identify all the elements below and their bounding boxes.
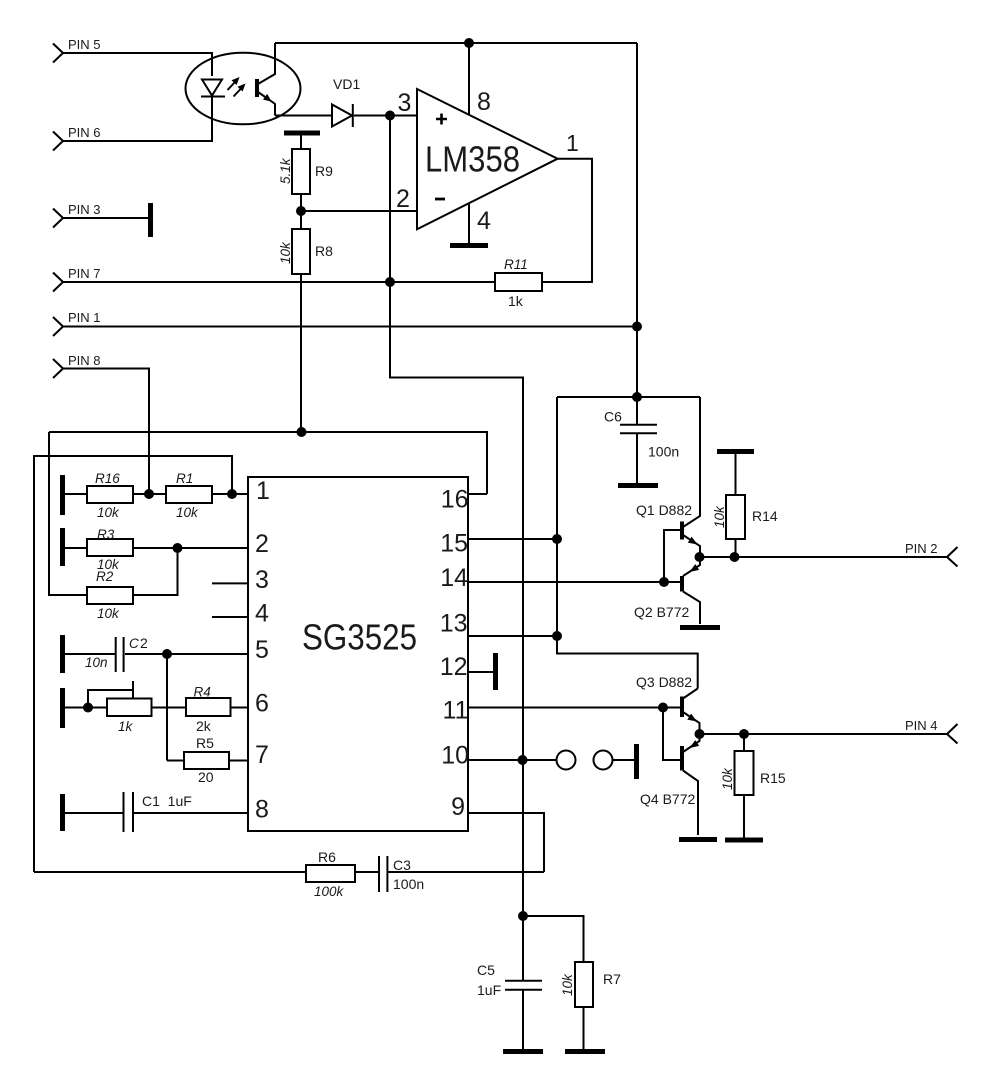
wire Ct to R5: [167, 760, 184, 762]
node junction pin11/Q4 base: [658, 703, 668, 713]
svg-text:10k: 10k: [278, 241, 293, 264]
svg-text:PIN 5: PIN 5: [68, 37, 101, 52]
svg-text:7: 7: [255, 741, 269, 769]
svg-text:C1 1uF: C1 1uF: [142, 793, 192, 809]
wire output to PIN 4: [700, 733, 947, 735]
svg-text:13: 13: [440, 610, 468, 638]
wire mid bus pin15/pin13: [556, 397, 558, 636]
node junction pin10 bus: [518, 755, 528, 765]
wire SG3525 pin10: [468, 759, 557, 761]
svg-text:R16: R16: [95, 471, 120, 486]
jumper circle A: [557, 751, 576, 770]
svg-text:9: 9: [451, 793, 465, 821]
node junction pin15 bus: [552, 534, 562, 544]
ground under C6: [618, 483, 658, 488]
node junction R14/output: [730, 552, 740, 562]
wire SG3525 pin9: [468, 813, 544, 872]
node junction R8/vref rail: [297, 427, 307, 437]
wire PIN1 to node: [62, 326, 637, 328]
ground under C5: [503, 1049, 543, 1054]
resistor R3: [64, 527, 133, 572]
wire PIN7 to R11: [62, 281, 495, 283]
svg-text:10k: 10k: [176, 505, 199, 520]
wire PIN6 to optocoupler LED cathode: [62, 97, 212, 141]
svg-text:Q2 B772: Q2 B772: [634, 604, 689, 620]
svg-text:LM358: LM358: [425, 139, 520, 180]
wire R2 left to vref rail: [49, 432, 87, 595]
wire optocoupler collector to top rail: [275, 42, 637, 44]
node junction R15/output: [739, 729, 749, 739]
terminator bar left of R3: [60, 528, 65, 566]
svg-text:Q4 B772: Q4 B772: [640, 791, 695, 807]
capacitor C5: [477, 916, 542, 1049]
transistor Q1 D882: [636, 397, 700, 582]
wire R16 to R1: [133, 493, 166, 495]
node junction R9/R8/opamp pin2: [296, 206, 306, 216]
resistor R7: [560, 962, 621, 1049]
svg-text:5.1k: 5.1k: [278, 157, 293, 184]
svg-text:1: 1: [256, 477, 270, 505]
svg-text:1: 1: [566, 130, 579, 156]
resistor R15: [720, 734, 786, 838]
node junction pin2/R2: [173, 543, 183, 553]
svg-text:10k: 10k: [560, 973, 575, 996]
svg-text:PIN 2: PIN 2: [905, 541, 938, 556]
svg-text:Q3 D882: Q3 D882: [636, 674, 692, 690]
node junction pin13 bus: [552, 631, 562, 641]
wire C1 to SG3525 pin8: [134, 812, 248, 814]
svg-text:1k: 1k: [118, 719, 134, 734]
node junction pin5/Ct: [162, 649, 172, 659]
svg-text:100n: 100n: [393, 876, 424, 892]
node junction Q3/Q4 emitters: [695, 729, 705, 739]
wire node down to PIN7 line: [389, 116, 391, 283]
resistor R9: [278, 135, 333, 211]
terminator bar left of C2: [60, 635, 65, 673]
optocoupler LED: [201, 80, 225, 97]
svg-text:R5: R5: [196, 735, 214, 751]
terminator bar left of C1: [60, 794, 65, 831]
terminator bar above R14: [717, 449, 754, 454]
connector PIN 7: [53, 266, 101, 292]
wire optocoupler emitter to VD1: [275, 115, 332, 117]
wire R3 to SG3525 pin2: [133, 547, 248, 549]
svg-text:R6: R6: [318, 849, 336, 865]
wire feedback rail left: [34, 456, 232, 872]
wire SG3525 pin16: [468, 493, 487, 495]
ground under Q4: [679, 837, 717, 842]
terminator bar left of pot: [60, 688, 65, 728]
svg-text:R11: R11: [504, 257, 528, 272]
svg-text:Q1 D882: Q1 D882: [636, 502, 692, 518]
svg-text:PIN 4: PIN 4: [905, 718, 938, 733]
wire PIN3 stub: [62, 217, 148, 219]
svg-text:6: 6: [255, 690, 269, 718]
node junction C5/R7: [518, 911, 528, 921]
svg-text:R2: R2: [96, 569, 114, 584]
node junction R1/pin1: [227, 489, 237, 499]
resistor R14: [712, 454, 778, 557]
svg-text:PIN 7: PIN 7: [68, 266, 101, 281]
terminator bar PIN3: [148, 203, 153, 237]
node junction PIN7 line: [385, 277, 395, 287]
svg-text:C: C: [129, 636, 139, 651]
capacitor C2: [64, 635, 148, 672]
SG3525 pin labels right: [440, 486, 469, 822]
svg-text:15: 15: [440, 530, 468, 558]
svg-text:2: 2: [396, 185, 410, 213]
resistor R5: [184, 735, 229, 785]
svg-text:PIN 1: PIN 1: [68, 310, 101, 325]
svg-text:PIN 6: PIN 6: [68, 125, 101, 140]
node junction Q1/Q2 emitters: [695, 552, 705, 562]
wire SG3525 pin13: [468, 635, 557, 637]
wire SG3525 pin15: [468, 538, 557, 540]
terminator bar pin12: [493, 653, 498, 690]
svg-text:2: 2: [255, 530, 269, 558]
svg-text:4: 4: [255, 600, 269, 628]
svg-text:10k: 10k: [712, 505, 727, 528]
node junction VD1/opamp: [385, 111, 395, 121]
wire jumper to bar: [613, 759, 635, 761]
wire op-amp pin 8 supply: [468, 43, 470, 115]
SG3525 pin4 stub: [212, 616, 248, 618]
svg-text:100k: 100k: [314, 884, 345, 899]
transistor Q3 D882: [636, 674, 700, 734]
transistor Q2 B772: [634, 557, 700, 624]
svg-text:2: 2: [140, 635, 148, 651]
svg-text:12: 12: [440, 653, 468, 681]
wire C2 to SG3525 pin5: [125, 653, 248, 655]
node junction pot left: [83, 703, 93, 713]
svg-text:R14: R14: [752, 508, 778, 524]
SG3525 pin labels left: [255, 477, 270, 824]
svg-text:20: 20: [198, 769, 214, 785]
ground under Q2: [680, 625, 720, 630]
SG3525 IC U3 body: [248, 477, 468, 831]
wire SG3525 pin12 stub: [468, 671, 493, 673]
connector PIN 6: [53, 125, 101, 151]
op-amp U1 LM358: [417, 89, 558, 229]
wire output to PIN 2: [700, 556, 947, 558]
node junction R16/R1/PIN8: [144, 489, 154, 499]
SG3525 pin3 stub: [212, 582, 248, 584]
resistor R11: [495, 257, 542, 309]
potentiometer 1k body: [107, 699, 152, 735]
capacitor C1: [64, 792, 192, 832]
wire pin11 down to Q4 base: [663, 708, 680, 761]
wire R6 to C3: [355, 871, 378, 873]
wire PIN8 to R16/R1 junction: [62, 369, 149, 493]
ground under R15: [725, 838, 763, 843]
svg-text:10k: 10k: [97, 505, 120, 520]
svg-text:PIN 3: PIN 3: [68, 202, 101, 217]
svg-text:4: 4: [477, 207, 491, 235]
svg-text:R3: R3: [97, 527, 115, 542]
terminator bar above R9: [284, 131, 320, 136]
svg-text:16: 16: [441, 486, 469, 514]
resistor R6: [306, 849, 355, 899]
svg-text:3: 3: [398, 89, 412, 117]
node junction C6 top: [632, 392, 642, 402]
connector PIN 3: [53, 202, 101, 228]
svg-text:10k: 10k: [97, 606, 120, 621]
wire PIN5 to optocoupler LED anode: [62, 53, 212, 76]
svg-text:5: 5: [255, 636, 269, 664]
wire feedback bottom to R6: [34, 871, 306, 873]
wire R2 right to pin2 node: [133, 548, 178, 595]
svg-text:8: 8: [477, 88, 491, 116]
svg-text:2k: 2k: [196, 718, 212, 734]
wire vref rail horizontal: [49, 432, 487, 494]
connector PIN 2: [905, 541, 958, 567]
resistor R16: [64, 471, 133, 520]
wire R5 to SG3525 pin7: [229, 760, 248, 762]
resistor R8: [278, 211, 333, 432]
optocoupler light arrows: [228, 77, 246, 97]
svg-text:R7: R7: [603, 971, 621, 987]
wire SG3525 pin14 to Q2 base: [468, 581, 680, 583]
svg-text:3: 3: [255, 566, 269, 594]
svg-text:10n: 10n: [85, 655, 108, 670]
svg-text:1k: 1k: [508, 293, 524, 309]
wire C3 to pin9 drop: [388, 871, 544, 873]
wire bus to Q3 collector: [557, 636, 698, 689]
wire op-amp pin 4 to ground: [468, 203, 470, 243]
svg-text:14: 14: [440, 564, 468, 592]
svg-text:C6: C6: [604, 409, 622, 425]
wire pot to R4: [152, 707, 187, 709]
svg-text:SG3525: SG3525: [302, 617, 417, 658]
connector PIN 8: [53, 353, 101, 378]
wire op-amp output pin1 to R11: [542, 159, 592, 282]
svg-text:10: 10: [441, 742, 469, 770]
wire top rail down right side: [636, 43, 638, 424]
ground under op-amp: [450, 243, 488, 248]
optocoupler U2 body ellipse: [186, 53, 301, 125]
connector PIN 5: [53, 37, 101, 63]
node junction PIN1 rail: [632, 322, 642, 332]
svg-text:100n: 100n: [648, 444, 679, 460]
svg-text:8: 8: [255, 796, 269, 824]
wire R4 to SG3525 pin6: [231, 707, 249, 709]
transistor Q4 B772: [640, 734, 700, 835]
svg-text:C3: C3: [393, 857, 411, 873]
resistor R4: [186, 685, 231, 735]
connector PIN 4: [905, 718, 958, 744]
diode VD1: [332, 76, 360, 127]
wire VD1 to op-amp pin3: [354, 115, 417, 117]
svg-text:R1: R1: [176, 471, 193, 486]
wire node down and right to vertical bus: [390, 282, 523, 916]
ground under R7: [565, 1049, 605, 1054]
optocoupler phototransistor: [257, 43, 275, 116]
svg-text:R4: R4: [194, 685, 211, 700]
connector PIN 1: [53, 310, 101, 336]
svg-text:VD1: VD1: [333, 76, 360, 92]
node junction pin14/Q1 base: [659, 577, 669, 587]
wire R1 to SG3525 pin1: [212, 493, 248, 495]
terminator bar pin10: [634, 744, 639, 779]
wire C6 node horizontal: [557, 396, 700, 398]
svg-text:C5: C5: [477, 962, 495, 978]
capacitor C3: [379, 856, 424, 892]
wire SG3525 pin11 to Q3 base: [468, 707, 680, 709]
capacitor C6: [604, 409, 679, 484]
node junction top rail pin8: [464, 38, 474, 48]
potentiometer 1k wiper link: [88, 681, 133, 708]
wire Ct node down to R5: [166, 654, 168, 761]
svg-text:10k: 10k: [720, 767, 735, 790]
resistor R2: [87, 569, 133, 621]
wire junction to op-amp pin 2: [301, 210, 417, 212]
jumper circle B: [594, 751, 613, 770]
svg-text:PIN 8: PIN 8: [68, 353, 101, 368]
svg-text:R15: R15: [760, 770, 786, 786]
svg-text:11: 11: [443, 697, 469, 725]
wire bar to pot: [64, 707, 107, 709]
terminator bar left of R16: [60, 475, 65, 515]
svg-text:R8: R8: [315, 243, 333, 259]
svg-text:R9: R9: [315, 163, 333, 179]
resistor R1: [166, 471, 212, 520]
svg-text:1uF: 1uF: [477, 982, 501, 998]
wire node to R7: [523, 916, 584, 962]
